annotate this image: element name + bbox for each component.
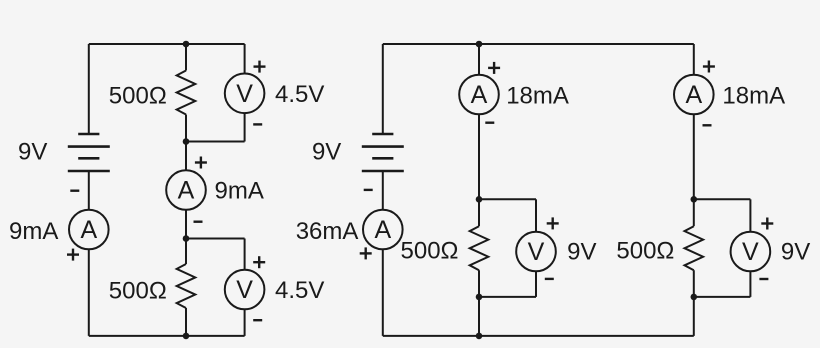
label + terminal <box>547 217 559 229</box>
wire <box>749 271 751 297</box>
label - terminal <box>759 278 768 280</box>
label + terminal <box>67 249 79 261</box>
label - terminal <box>253 123 262 125</box>
resistor R4 500 <box>685 226 704 270</box>
wire <box>186 238 245 240</box>
svg-text:500Ω: 500Ω <box>616 237 674 264</box>
wire <box>382 171 384 210</box>
wire <box>88 44 90 134</box>
node junction <box>476 41 483 48</box>
node junction <box>476 196 483 203</box>
wire <box>693 297 695 336</box>
label + terminal <box>761 218 773 230</box>
battery B2 9V <box>362 134 404 171</box>
wire <box>478 297 480 336</box>
label - terminal <box>253 319 262 321</box>
svg-text:9V: 9V <box>781 238 810 265</box>
node junction <box>691 196 698 203</box>
node junction <box>183 235 190 242</box>
ammeter M1 <box>69 210 109 250</box>
battery B1 9V <box>68 134 110 171</box>
wire <box>693 199 695 226</box>
svg-text:A: A <box>374 216 391 244</box>
ammeter M6 <box>459 75 499 115</box>
resistor R3 500 <box>470 226 489 270</box>
wire <box>535 271 537 297</box>
node junction <box>183 41 190 48</box>
wire <box>244 113 246 141</box>
wire <box>185 210 187 239</box>
svg-text:A: A <box>685 81 702 109</box>
wire <box>89 43 245 45</box>
node junction <box>183 138 190 145</box>
svg-text:A: A <box>471 81 488 109</box>
svg-text:9V: 9V <box>312 139 341 166</box>
label + terminal <box>488 62 500 74</box>
svg-text:V: V <box>528 238 545 266</box>
wire <box>88 171 90 210</box>
svg-text:A: A <box>80 216 97 244</box>
node junction <box>476 294 483 301</box>
wire <box>479 198 536 200</box>
resistor R2 500 <box>177 264 196 308</box>
wire <box>478 114 480 199</box>
wire <box>694 296 751 298</box>
wire <box>749 199 751 231</box>
voltmeter M7 <box>516 232 556 272</box>
wire <box>185 115 187 142</box>
label + terminal <box>360 247 372 259</box>
wire <box>382 249 384 336</box>
svg-text:4.5V: 4.5V <box>275 81 324 108</box>
wire <box>185 142 187 171</box>
voltmeter M3 <box>225 74 265 114</box>
label + terminal <box>195 157 207 169</box>
wire <box>382 44 384 134</box>
wire <box>383 335 694 337</box>
svg-text:500Ω: 500Ω <box>401 237 459 264</box>
ammeter M5 <box>363 210 403 250</box>
label - terminal <box>70 189 79 191</box>
svg-text:9V: 9V <box>567 238 596 265</box>
svg-text:9V: 9V <box>18 139 47 166</box>
wire <box>693 44 695 75</box>
ammeter M2 <box>166 170 206 210</box>
label - terminal <box>703 124 712 126</box>
ammeter M8 <box>674 75 714 115</box>
wire <box>535 199 537 231</box>
wire <box>383 43 694 45</box>
wire <box>244 44 246 74</box>
svg-text:9mA: 9mA <box>215 178 264 205</box>
wire <box>244 309 246 336</box>
wire <box>185 44 187 71</box>
wire <box>244 239 246 270</box>
label - terminal <box>485 121 494 123</box>
svg-text:18mA: 18mA <box>722 82 785 109</box>
node junction <box>476 333 483 340</box>
label - terminal <box>545 278 554 280</box>
voltmeter M4 <box>225 270 265 310</box>
svg-text:V: V <box>236 276 253 304</box>
svg-text:V: V <box>742 238 759 266</box>
svg-text:500Ω: 500Ω <box>109 277 167 304</box>
node junction <box>183 333 190 340</box>
svg-text:V: V <box>236 80 253 108</box>
wire <box>478 270 480 297</box>
svg-text:18mA: 18mA <box>506 82 569 109</box>
wire <box>478 199 480 226</box>
wire <box>89 335 245 337</box>
svg-text:A: A <box>178 177 195 205</box>
wire <box>185 239 187 265</box>
wire <box>479 296 536 298</box>
label - terminal <box>364 189 373 191</box>
wire <box>186 141 245 143</box>
wire <box>693 270 695 297</box>
label + terminal <box>253 256 265 268</box>
svg-text:500Ω: 500Ω <box>109 82 167 109</box>
voltmeter M9 <box>731 232 771 272</box>
label - terminal <box>194 220 203 222</box>
wire <box>693 114 695 199</box>
resistor R1 500 <box>177 71 196 115</box>
wire <box>478 44 480 75</box>
svg-text:36mA: 36mA <box>296 218 359 245</box>
wire <box>88 249 90 336</box>
svg-text:9mA: 9mA <box>9 218 58 245</box>
svg-text:4.5V: 4.5V <box>275 277 324 304</box>
wire <box>185 308 187 336</box>
label + terminal <box>703 61 715 73</box>
node junction <box>691 294 698 301</box>
wire <box>694 198 751 200</box>
label + terminal <box>254 61 266 73</box>
